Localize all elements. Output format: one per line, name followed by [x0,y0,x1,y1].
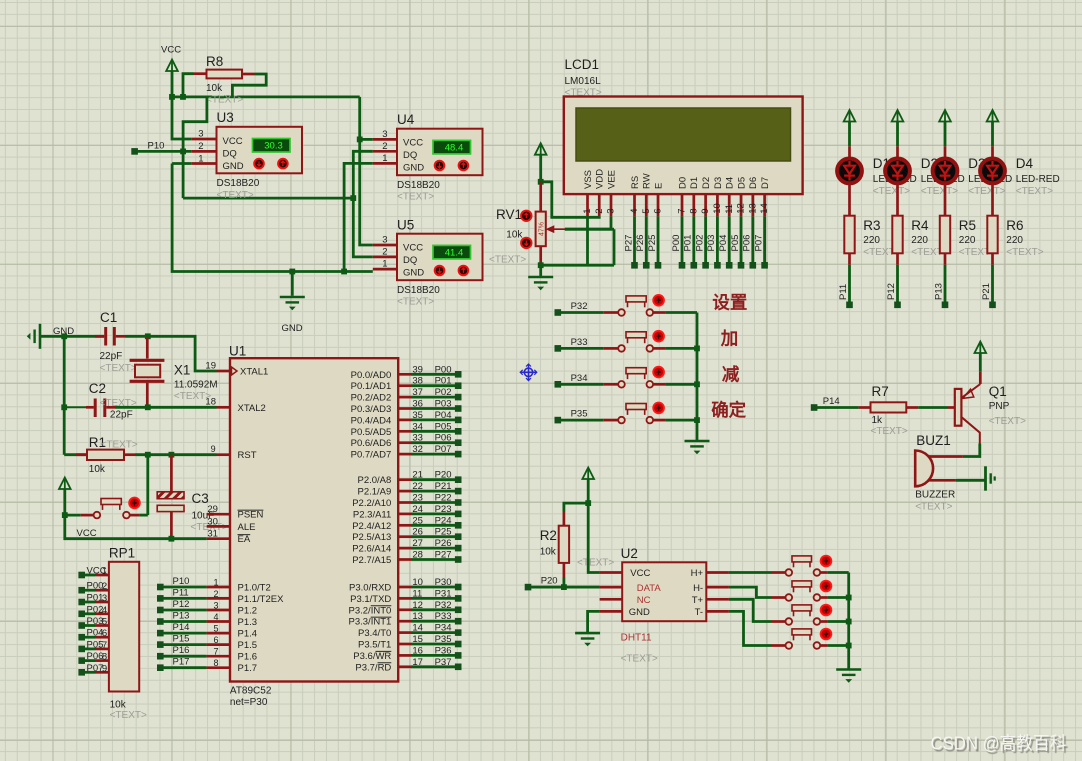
wire [137,150,192,153]
pin 25 P2.4/A12 / net P24 [398,524,411,527]
svg-text:P24: P24 [435,515,452,526]
crystal X1 [146,338,149,359]
pin 21 P2.0/A8 / net P20 [398,478,411,481]
svg-text:LCD1: LCD1 [565,57,600,72]
svg-text:P3.0/RXD: P3.0/RXD [349,583,391,594]
pin 36 P0.3/AD3 / net P03 [398,407,411,410]
wire H- [729,587,771,597]
svg-text:P3.3/INT1: P3.3/INT1 [349,617,392,628]
svg-text:P02: P02 [435,387,452,398]
LCD pin 13 D6 [751,194,754,216]
sensor U3 DS18B20 [217,127,303,174]
svg-text:P1.5: P1.5 [238,640,258,651]
svg-text:VEE: VEE [606,170,617,189]
LED D1 [848,146,851,158]
wire VCC bus [172,96,360,99]
wire button bus [847,573,850,670]
wire [140,514,148,517]
pin 6 P1.5 / terminal P15 [157,641,164,648]
svg-text:P1.6: P1.6 [238,652,258,663]
wire [183,97,207,198]
svg-text:RV1: RV1 [496,207,522,222]
junction [585,500,591,506]
svg-text:P0.0/AD0: P0.0/AD0 [351,370,392,381]
wire [560,311,603,314]
junction [62,512,68,518]
svg-text:P25: P25 [647,235,658,252]
wire P20 to DATA [531,586,600,589]
svg-text:RST: RST [238,450,257,461]
svg-text:P3.2/INT0: P3.2/INT0 [349,605,392,616]
pin 28 P2.7/A15 / net P27 [398,558,411,561]
svg-text:P23: P23 [435,504,452,515]
wire [560,419,603,422]
svg-text:D2: D2 [701,177,712,189]
svg-text:10k: 10k [506,229,523,240]
svg-text:14: 14 [759,203,770,214]
svg-text:DATA: DATA [637,583,662,594]
svg-text:PSEN: PSEN [238,510,264,521]
svg-text:10k: 10k [206,83,223,94]
svg-text:5: 5 [102,617,107,628]
svg-text:P11: P11 [173,587,189,598]
ground (buzzer) [984,466,987,490]
junction [180,149,186,155]
ground (sim buttons) [836,668,861,671]
svg-text:R6: R6 [1006,218,1023,233]
svg-text:<TEXT>: <TEXT> [397,192,434,203]
svg-text:37: 37 [412,387,423,398]
svg-text:T-: T- [695,607,703,618]
ground (left) [39,324,42,349]
pin 8 P1.7 / terminal P17 [157,664,164,671]
wire / terminal P12 [896,265,899,305]
pin (U2 right) [706,586,729,589]
svg-text:P10: P10 [148,141,165,152]
svg-text:11: 11 [724,204,735,214]
capacitor C3 (electrolytic) [170,455,173,492]
wire DQ trunk [183,197,353,200]
svg-text:P3.4/T0: P3.4/T0 [358,628,391,639]
pin (U2 left) [600,598,623,601]
svg-text:P10: P10 [173,576,190,587]
LCD pin 8 D1 [692,194,695,216]
svg-text:P2.5/A13: P2.5/A13 [352,532,391,543]
push button P32 [604,311,619,314]
svg-text:VDD: VDD [595,169,606,189]
svg-text:41.4: 41.4 [445,247,464,258]
svg-text:PNP: PNP [989,401,1010,412]
wire [148,336,217,371]
LCD pin 10 D3 [716,194,719,216]
LCD pin 9 D2 [704,194,707,216]
wire / terminal P06 [751,216,754,263]
svg-text:P35: P35 [571,409,588,420]
ground (keys) [685,440,710,443]
pot buttons [521,211,531,221]
svg-text:22pF: 22pF [100,351,123,362]
wire [360,138,373,141]
power flag VCC (U2) [582,468,594,480]
svg-text:P1.7: P1.7 [238,663,258,674]
svg-text:P1.1/T2EX: P1.1/T2EX [238,594,285,605]
svg-text:P3.6/WR: P3.6/WR [353,651,391,662]
svg-text:D0: D0 [677,177,688,189]
svg-text:P32: P32 [571,301,588,312]
svg-text:28: 28 [412,550,423,561]
ground (RV1) [539,265,542,276]
svg-text:R4: R4 [911,218,929,233]
capacitor C2 [94,399,97,418]
svg-text:P1.2: P1.2 [238,606,258,617]
svg-text:P05: P05 [730,235,741,252]
svg-text:P02: P02 [87,604,104,615]
pin 39 P0.0/AD0 / net P00 [398,373,411,376]
terminal P06 (RP1 pin 8) [78,657,85,664]
svg-text:P0.5/AD5: P0.5/AD5 [351,427,392,438]
wire [828,644,849,647]
svg-text:18: 18 [205,397,216,408]
pin 2 P1.1/T2EX / terminal P11 [157,595,164,602]
sensor U4 DS18B20 [397,129,483,176]
junction [145,452,151,458]
wire [171,71,174,97]
svg-text:P02: P02 [694,235,705,252]
svg-text:P15: P15 [173,634,190,645]
wire T- [729,611,771,645]
svg-text:D4: D4 [725,177,736,189]
transistor Q1 PNP [979,372,982,384]
svg-text:P14: P14 [823,396,840,407]
power flag VCC (top-left) [166,60,178,72]
svg-text:D5: D5 [736,177,747,189]
pin 27 P2.6/A14 / net P26 [398,547,411,550]
svg-text:5: 5 [213,624,218,634]
wire / terminal P04 [728,216,731,263]
svg-text:P04: P04 [718,235,729,252]
svg-text:11.0592M: 11.0592M [174,380,218,391]
svg-text:R3: R3 [863,218,880,233]
pin 37 P0.2/AD2 / net P02 [398,396,411,399]
svg-text:<TEXT>: <TEXT> [1006,247,1043,258]
push button P35 [604,419,619,422]
svg-text:3: 3 [606,209,617,214]
pin 16 P3.6/<tspan text-decoration="overline">WR</tspan> / net P36 [398,654,411,657]
junction [61,333,67,339]
svg-text:10k: 10k [89,464,106,475]
svg-text:DQ: DQ [403,150,417,161]
potentiometer RV1 [539,182,542,212]
wire [979,353,982,372]
svg-text:GND: GND [223,161,244,172]
wire VCC to U2 [588,503,599,572]
svg-text:P22: P22 [435,493,452,504]
junction [694,346,700,352]
svg-text:2: 2 [213,589,218,599]
svg-text:CSDN @高教百科: CSDN @高教百科 [931,734,1067,754]
wire [665,347,697,350]
junction [846,619,852,625]
wire [183,74,194,97]
svg-text:P27: P27 [623,235,634,252]
wire / terminal P21 [991,265,994,305]
wire / terminal P13 [944,265,947,305]
svg-text:P3.1/TXD: P3.1/TXD [350,594,391,605]
push button (reset) [81,514,94,517]
wire / terminal P07 [763,216,766,263]
svg-text:220: 220 [863,235,880,246]
svg-text:P04: P04 [87,628,104,639]
terminal P10 [131,148,138,155]
svg-text:DS18B20: DS18B20 [217,178,260,189]
junction [538,262,544,268]
svg-text:8: 8 [688,209,699,214]
pin 11 P3.1/TXD / net P31 [398,597,411,600]
svg-text:R7: R7 [872,384,889,399]
svg-text:P1.4: P1.4 [238,629,258,640]
svg-text:P1.0/T2: P1.0/T2 [238,583,271,594]
svg-text:R5: R5 [959,218,976,233]
svg-text:DQ: DQ [223,148,237,159]
wire VSS [586,216,589,265]
pin 33 P0.6/AD6 / net P06 [398,441,411,444]
wire VCC drop [360,97,373,245]
wire [665,383,697,386]
svg-text:U4: U4 [397,112,415,127]
junction [846,643,852,649]
svg-text:<TEXT>: <TEXT> [1016,186,1053,197]
LED D3 [944,146,947,158]
resistor R4 220 [896,184,899,216]
push button (sensor sim 2) [771,596,786,599]
svg-text:19: 19 [205,361,216,372]
svg-text:220: 220 [911,235,928,246]
svg-text:P0.3/AD3: P0.3/AD3 [351,404,392,415]
svg-text:13: 13 [747,203,758,214]
svg-text:P34: P34 [571,373,588,384]
svg-text:2: 2 [102,581,107,592]
wire [560,383,603,386]
svg-text:4: 4 [102,605,107,616]
svg-text:P25: P25 [435,527,452,538]
terminal P07 (RP1 pin 9) [78,669,85,676]
power flag VCC (D3) [939,110,951,122]
junction [169,452,175,458]
svg-text:24: 24 [412,504,423,515]
wire [563,577,566,587]
svg-text:7: 7 [102,640,107,651]
svg-text:P2.0/A8: P2.0/A8 [357,475,391,486]
svg-text:<TEXT>: <TEXT> [397,297,434,308]
svg-text:VCC: VCC [630,568,650,579]
svg-text:P06: P06 [742,235,753,252]
svg-text:U3: U3 [217,110,234,125]
svg-text:1: 1 [102,566,107,577]
svg-text:C3: C3 [192,491,209,506]
svg-text:P35: P35 [435,634,452,645]
svg-text:RS: RS [630,176,641,189]
svg-text:LM016L: LM016L [565,76,602,87]
svg-text:R2: R2 [540,528,557,543]
svg-text:VCC: VCC [403,243,423,254]
junction [694,381,700,387]
svg-text:P26: P26 [435,538,452,549]
svg-text:P0.6/AD6: P0.6/AD6 [351,438,392,449]
pin 17 P3.7/<tspan text-decoration="overline">RD</tspan> / net P37 [398,665,411,668]
svg-text:12: 12 [736,203,747,214]
svg-text:GND: GND [629,607,650,618]
svg-text:7: 7 [677,209,688,214]
svg-text:U5: U5 [397,218,414,233]
svg-text:P26: P26 [635,235,646,252]
svg-text:<TEXT>: <TEXT> [100,363,137,374]
svg-text:220: 220 [959,235,976,246]
pin (U2 left) [600,571,623,574]
wire / terminal P00 [681,216,684,263]
svg-text:NC: NC [637,595,651,606]
pin 22 P2.1/A9 / net P21 [398,490,411,493]
pin 26 P2.5/A13 / net P25 [398,535,411,538]
svg-text:21: 21 [412,470,423,481]
svg-text:H+: H+ [691,568,704,579]
svg-text:35: 35 [412,410,423,421]
svg-text:Q1: Q1 [989,384,1007,399]
svg-text:5: 5 [641,209,652,214]
svg-text:P21: P21 [435,481,452,492]
svg-text:P2.4/A12: P2.4/A12 [352,521,391,532]
svg-text:<TEXT>: <TEXT> [101,440,138,451]
wire VEE to wiper [565,216,611,229]
wire [828,596,849,599]
wire [63,336,66,454]
svg-text:BUZ1: BUZ1 [916,433,951,448]
svg-text:X1: X1 [174,363,191,378]
junction [145,333,151,339]
terminal P35 [555,417,562,424]
power flag VCC (LCD) [535,143,547,155]
svg-text:VCC: VCC [223,136,243,147]
svg-text:VCC: VCC [161,45,181,56]
wire [918,406,947,409]
wire GND link [172,164,373,272]
svg-text:P3.5/T1: P3.5/T1 [358,640,391,651]
pin 15 P3.5/T1 / net P35 [398,643,411,646]
svg-text:P20: P20 [541,576,558,587]
svg-text:P2.3/A11: P2.3/A11 [353,509,391,520]
junction [846,595,852,601]
svg-text:26: 26 [412,527,423,538]
wire [665,419,697,422]
svg-text:LED-RED: LED-RED [1016,174,1060,185]
svg-text:P32: P32 [435,600,452,611]
svg-text:P00: P00 [87,581,104,592]
svg-text:32: 32 [412,444,423,455]
pin 13 P3.3/<tspan text-decoration="overline">INT1</tspan> / net P33 [398,620,411,623]
svg-text:2: 2 [594,209,605,214]
svg-text:设置: 设置 [712,293,747,313]
wire wiper line [565,228,614,231]
svg-text:P04: P04 [435,410,452,421]
wire [40,335,104,338]
pin 12 P3.2/<tspan text-decoration="overline">INT0</tspan> / net P32 [398,608,411,611]
svg-text:10: 10 [712,203,723,214]
svg-text:P36: P36 [435,645,452,656]
pin 24 P2.3/A11 / net P23 [398,513,411,516]
pin 5 P1.4 / terminal P14 [157,630,164,637]
svg-text:P30: P30 [435,577,452,588]
junction [341,269,347,275]
svg-text:ALE: ALE [238,522,256,533]
svg-text:10k: 10k [110,700,127,711]
svg-text:P17: P17 [173,657,190,668]
svg-text:P03: P03 [706,235,717,252]
LCD pin 12 D5 [740,194,743,216]
svg-text:D3: D3 [713,177,724,189]
svg-text:9: 9 [700,209,711,214]
svg-text:C1: C1 [100,310,117,325]
svg-text:P31: P31 [435,588,452,599]
power flag VCC (D1) [844,110,856,122]
LCD pin 7 D0 [681,194,684,216]
junction [357,137,363,143]
junction [350,195,356,201]
svg-text:3: 3 [102,593,107,604]
pin 23 P2.2/A10 / net P22 [398,501,411,504]
svg-text:AT89C52: AT89C52 [230,686,272,697]
svg-text:XTAL2: XTAL2 [238,403,266,414]
svg-text:23: 23 [412,493,423,504]
svg-text:22: 22 [412,481,423,492]
svg-text:R8: R8 [206,54,223,69]
power flag VCC (D2) [892,110,904,122]
resistor R8 [194,72,207,75]
pin (U2 right) [706,610,729,613]
svg-text:16: 16 [412,645,423,656]
terminal VCC (RP1 pin 1) [78,572,85,579]
svg-text:DS18B20: DS18B20 [397,180,440,191]
junction [180,94,186,100]
svg-text:P14: P14 [173,622,190,633]
wire / terminal P27 [633,216,636,263]
svg-text:P03: P03 [435,399,452,410]
svg-text:P16: P16 [173,645,190,656]
pin (U2 right) [706,598,729,601]
pin 38 P0.1/AD1 / net P01 [398,384,411,387]
svg-text:17: 17 [412,657,423,668]
svg-text:RP1: RP1 [109,546,135,561]
wire [146,455,149,515]
svg-text:P27: P27 [435,550,452,561]
resistor R6 220 [991,184,994,216]
terminal P33 [555,345,562,352]
svg-text:10: 10 [412,577,423,588]
svg-text:D4: D4 [1016,156,1034,171]
svg-text:减: 减 [722,364,740,384]
push button P34 [604,383,619,386]
pin 4 P1.3 / terminal P13 [157,618,164,625]
wire [115,406,217,409]
svg-text:P0.2/AD2: P0.2/AD2 [351,393,392,404]
svg-text:GND: GND [403,163,424,174]
svg-text:D7: D7 [760,177,771,189]
svg-text:27: 27 [412,538,423,549]
svg-text:6: 6 [653,209,664,214]
wire [541,264,614,267]
wire / terminal P05 [740,216,743,263]
svg-text:P03: P03 [87,616,104,627]
svg-text:P33: P33 [435,611,452,622]
svg-text:P2.2/A10: P2.2/A10 [352,498,391,509]
